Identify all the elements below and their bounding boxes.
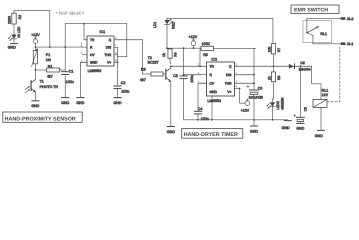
ground under C6 bbox=[296, 123, 304, 130]
svg-text:Q: Q bbox=[229, 65, 232, 69]
svg-text:1M: 1M bbox=[46, 58, 51, 62]
svg-text:7: 7 bbox=[236, 71, 238, 75]
svg-text:4k7: 4k7 bbox=[140, 78, 146, 82]
svg-text:1k: 1k bbox=[162, 53, 166, 57]
capacitor C4 bbox=[194, 83, 208, 121]
svg-text:C5: C5 bbox=[258, 87, 263, 91]
capacitor C3 bbox=[173, 48, 194, 120]
svg-text:* TEST SELECT: * TEST SELECT bbox=[56, 10, 85, 15]
svg-text:12V: 12V bbox=[322, 93, 329, 97]
svg-text:R1: R1 bbox=[48, 64, 53, 68]
label HAND-DRYER TIMER bbox=[182, 129, 243, 139]
svg-text:PHOTO TR: PHOTO TR bbox=[40, 85, 59, 89]
ground under C2 bbox=[114, 98, 122, 105]
svg-text:HAND-DRYER TIMER: HAND-DRYER TIMER bbox=[184, 132, 238, 138]
capacitor C6 electrolytic bbox=[294, 66, 308, 123]
svg-text:100n: 100n bbox=[66, 80, 74, 84]
svg-text:J1-2: J1-2 bbox=[347, 17, 354, 21]
svg-text:6: 6 bbox=[115, 51, 117, 55]
svg-text:GND: GND bbox=[90, 61, 98, 65]
wire DIS-THR-V+ tie bbox=[117, 47, 119, 62]
transistor T1 (photo) bbox=[25, 70, 58, 101]
svg-text:+12V: +12V bbox=[31, 33, 40, 37]
LED LD1 bbox=[153, 18, 175, 48]
node D2 cathode to C6 bbox=[300, 65, 302, 67]
ground under RL1 bbox=[315, 130, 325, 138]
svg-text:TR: TR bbox=[210, 65, 215, 69]
svg-text:3: 3 bbox=[236, 63, 238, 67]
svg-text:100uF/25: 100uF/25 bbox=[249, 95, 263, 99]
svg-text:GND: GND bbox=[8, 46, 16, 50]
svg-text:4k7: 4k7 bbox=[47, 74, 53, 78]
supply +12V (middle) bbox=[189, 35, 198, 48]
capacitor C2 bbox=[114, 62, 129, 97]
svg-text:IC1: IC1 bbox=[100, 30, 106, 34]
relay coil RL1 bbox=[313, 88, 329, 130]
svg-text:LM555N: LM555N bbox=[207, 99, 221, 103]
svg-text:LD1: LD1 bbox=[153, 22, 157, 28]
svg-text:R2: R2 bbox=[18, 15, 22, 19]
svg-text:10k: 10k bbox=[267, 46, 271, 52]
node rail junction dots bbox=[35, 46, 37, 48]
svg-text:T2: T2 bbox=[148, 56, 152, 60]
svg-text:GND: GND bbox=[210, 90, 218, 94]
pin stubs IC1 left bbox=[83, 46, 88, 48]
node P1/R1/T1 junction bbox=[35, 69, 37, 71]
wire +12V mid rail bbox=[167, 47, 201, 49]
svg-text:R7: R7 bbox=[277, 48, 281, 52]
svg-text:R: R bbox=[90, 46, 93, 50]
resistor R4 bbox=[162, 48, 177, 66]
svg-text:LED2: LED2 bbox=[276, 101, 280, 110]
svg-text:1k: 1k bbox=[267, 76, 271, 80]
op-amp timer IC1 LM555N bbox=[87, 30, 114, 73]
svg-text:GND: GND bbox=[167, 130, 175, 134]
wire R1 right to C1 column bbox=[60, 69, 66, 71]
svg-text:220R: 220R bbox=[8, 15, 12, 24]
svg-text:C6: C6 bbox=[304, 107, 308, 111]
node TEST line to TR drop bbox=[83, 23, 85, 25]
switch contact RL1 bbox=[306, 19, 327, 44]
wire GND rail bbox=[184, 119, 254, 121]
terminal J1-2 bbox=[307, 17, 354, 21]
wire +12V rail (left) bbox=[35, 46, 82, 48]
svg-text:P1: P1 bbox=[46, 53, 50, 57]
transistor T2 BC237 bbox=[148, 56, 172, 127]
timer IC2 LM555N bbox=[207, 58, 235, 104]
svg-text:CV: CV bbox=[210, 82, 215, 86]
svg-text:GND: GND bbox=[31, 104, 39, 108]
resistor R3 bbox=[140, 68, 166, 83]
wire Q output bbox=[119, 40, 143, 74]
wire timing column bbox=[254, 48, 255, 90]
potentiometer P1 bbox=[32, 47, 51, 70]
supply +12V (left) bbox=[31, 33, 40, 47]
svg-text:GND: GND bbox=[114, 101, 122, 105]
node Q2 to R7/R8 bbox=[273, 65, 275, 67]
svg-text:CV: CV bbox=[90, 53, 95, 57]
svg-text:D2: D2 bbox=[300, 61, 304, 65]
svg-text:100n: 100n bbox=[190, 75, 194, 83]
svg-text:R4: R4 bbox=[174, 52, 178, 56]
svg-text:GND: GND bbox=[61, 101, 69, 105]
svg-text:IC2: IC2 bbox=[211, 58, 217, 62]
node C5 to gnd rail bbox=[253, 119, 255, 121]
svg-text:C2: C2 bbox=[121, 81, 126, 85]
svg-text:C1: C1 bbox=[69, 70, 74, 74]
ground under T1 bbox=[31, 101, 39, 108]
resistor R7 bbox=[267, 44, 281, 67]
relay switch box bbox=[303, 21, 332, 43]
pin stubs IC2 left bbox=[201, 74, 207, 76]
svg-text:DIS: DIS bbox=[226, 73, 232, 77]
wire DIS long stub bbox=[235, 74, 255, 76]
ground under C1 bbox=[61, 98, 69, 105]
LED LED2 green bbox=[267, 97, 285, 120]
pin stubs IC1 right + numbers bbox=[114, 39, 119, 41]
svg-text:100n: 100n bbox=[121, 89, 129, 93]
ground under C5 bbox=[250, 126, 258, 134]
svg-text:C3: C3 bbox=[173, 74, 178, 78]
svg-text:T1: T1 bbox=[40, 80, 44, 84]
resistor R1 bbox=[47, 64, 60, 78]
wire T2 collector to IC2 TR bbox=[171, 65, 200, 67]
svg-text:GREEN: GREEN bbox=[280, 97, 284, 110]
wire V+ stub bbox=[235, 87, 240, 89]
diode D2 1N4004 bbox=[289, 61, 312, 72]
svg-text:GND: GND bbox=[76, 101, 84, 105]
svg-text:7: 7 bbox=[115, 44, 117, 48]
wire drop to TR pin bbox=[84, 24, 87, 40]
svg-text:GND: GND bbox=[296, 127, 304, 131]
svg-text:V+: V+ bbox=[227, 90, 231, 94]
label HAND-PROXIMITY SENSOR bbox=[3, 112, 82, 122]
svg-text:THR: THR bbox=[225, 82, 232, 86]
svg-text:DIS: DIS bbox=[106, 46, 112, 50]
ground at rail end bbox=[282, 121, 292, 131]
ground under IR LED bbox=[8, 44, 18, 50]
svg-text:THR: THR bbox=[104, 53, 111, 57]
svg-text:100K: 100K bbox=[202, 42, 211, 46]
wire IC2 GND pin down to rail bbox=[211, 96, 213, 120]
svg-text:R3: R3 bbox=[141, 68, 146, 72]
wire dashed mechanical link bbox=[339, 47, 341, 102]
svg-text:R8: R8 bbox=[277, 76, 281, 80]
svg-text:HAND-PROXIMITY SENSOR: HAND-PROXIMITY SENSOR bbox=[5, 116, 76, 122]
wire IC2 Q output bbox=[235, 65, 274, 67]
supply +12V (IC2 V+) bbox=[241, 99, 250, 113]
svg-text:GND: GND bbox=[250, 130, 258, 134]
wire relay feed bbox=[312, 66, 321, 99]
svg-text:100n: 100n bbox=[201, 117, 209, 121]
capacitor C1 bbox=[62, 47, 74, 97]
wire IC2 R pin to C3 bbox=[184, 74, 201, 76]
svg-text:RL1: RL1 bbox=[320, 32, 327, 36]
svg-text:6: 6 bbox=[236, 80, 238, 84]
wire Q2 to D2 bbox=[274, 65, 289, 67]
svg-text:GND: GND bbox=[315, 134, 323, 138]
wire top rail LD1 to R7 bbox=[167, 18, 273, 43]
wire IC1 GND pin down bbox=[80, 62, 87, 97]
wire P1 bottom junction bbox=[35, 69, 46, 71]
wire gnd rail extension to end ground bbox=[254, 119, 288, 121]
svg-text:RED: RED bbox=[171, 21, 175, 29]
svg-text:RL1: RL1 bbox=[322, 88, 328, 92]
svg-text:GND: GND bbox=[282, 126, 290, 130]
svg-text:C4: C4 bbox=[198, 107, 203, 111]
ground under IC1 bbox=[76, 98, 84, 105]
node V+ junction bbox=[117, 61, 119, 63]
terminal J1-1 bbox=[313, 42, 354, 46]
svg-text:EMR SWITCH: EMR SWITCH bbox=[294, 7, 328, 13]
svg-text:TR: TR bbox=[90, 38, 95, 42]
svg-text:V+: V+ bbox=[107, 61, 111, 65]
wire THR long stub bbox=[235, 82, 255, 84]
svg-text:LM555N: LM555N bbox=[88, 69, 102, 73]
svg-text:R5: R5 bbox=[203, 53, 208, 57]
wire TR2 feed bbox=[200, 48, 207, 66]
capacitor C5 electrolytic bbox=[247, 85, 263, 126]
svg-text:3: 3 bbox=[115, 36, 117, 40]
svg-text:+12V: +12V bbox=[189, 35, 198, 39]
wire R2 top to rail feed bbox=[14, 10, 50, 47]
LED IR LED bbox=[8, 24, 21, 43]
ground under T2 bbox=[167, 127, 175, 135]
resistor R5 bbox=[201, 42, 255, 57]
svg-text:BC237: BC237 bbox=[148, 60, 159, 64]
resistor R8 bbox=[267, 66, 281, 102]
svg-text:IR LED: IR LED bbox=[17, 26, 21, 37]
svg-text:J1-1: J1-1 bbox=[347, 42, 354, 46]
node C3 reset junction bbox=[183, 74, 185, 76]
resistor R2 bbox=[8, 13, 23, 24]
svg-text:Q: Q bbox=[109, 38, 112, 42]
svg-text:+12V: +12V bbox=[241, 109, 250, 113]
svg-text:R: R bbox=[210, 73, 213, 77]
wire TEST SELECT link bbox=[65, 24, 127, 47]
label EMR SWITCH bbox=[291, 5, 339, 14]
wire V+ to supply bbox=[240, 88, 245, 103]
